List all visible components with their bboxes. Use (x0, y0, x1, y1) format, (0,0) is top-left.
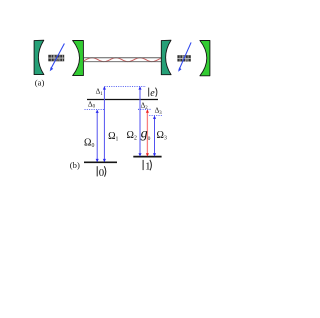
arrow Omega0 (blue, |0> to d0) (96, 110, 99, 163)
label Omega3 (157, 130, 167, 142)
atom A2 transition arrow (blue) (178, 42, 191, 71)
atom A2 hatched box (177, 55, 190, 61)
arrow g0 (red cavity coupling, |1> to d2) (146, 109, 149, 156)
detuning level d3 (right dashed lower) (147, 115, 162, 117)
svg-text:0: 0 (99, 167, 104, 179)
fiber lower wall (84, 61, 162, 63)
svg-text:1: 1 (145, 161, 150, 173)
svg-text:(a): (a) (35, 78, 45, 88)
label |e> (149, 88, 157, 99)
level |e> line (87, 99, 158, 101)
virtual level (top dashed) (104, 85, 146, 87)
label Delta0 (88, 100, 96, 110)
atom A1 hatched box (48, 55, 64, 62)
label Delta2 (141, 101, 149, 111)
level |0> line (84, 161, 117, 163)
mirror M3 (right cavity, left, teal concave) (161, 40, 171, 74)
mirror M1 (left cavity, left, teal concave) (34, 40, 44, 74)
level |1> line (133, 156, 161, 158)
detuning level d2 (right dashed upper) (138, 108, 151, 110)
mirror M2 (left cavity, right, green concave) (73, 41, 84, 76)
svg-text:e: e (150, 88, 155, 99)
label Delta3 (155, 106, 163, 116)
label g0 (141, 126, 151, 142)
label Omega2 (127, 130, 137, 142)
label Omega1 (108, 131, 118, 143)
detuning level d0 (left dashed) (85, 109, 105, 111)
atom A1 transition arrow (blue) (50, 44, 65, 72)
arrow Omega1 (blue, |0> to virtual level) (103, 86, 106, 162)
mirror M4 (right cavity, right, green concave) (200, 41, 210, 76)
label (b) (70, 160, 80, 170)
arrow Omega3 (blue, |1> to d3) (153, 116, 156, 157)
label Delta1 (96, 87, 104, 97)
fiber photon wave (red sine) (84, 58, 161, 62)
label Omega0 (84, 138, 94, 150)
svg-text:(b): (b) (70, 160, 80, 170)
label |1> (143, 160, 151, 173)
arrow Omega2 (blue, |1> to virtual level) (138, 86, 141, 156)
label (a) (35, 78, 45, 88)
fiber upper wall (84, 57, 162, 59)
label |0> (97, 166, 106, 179)
